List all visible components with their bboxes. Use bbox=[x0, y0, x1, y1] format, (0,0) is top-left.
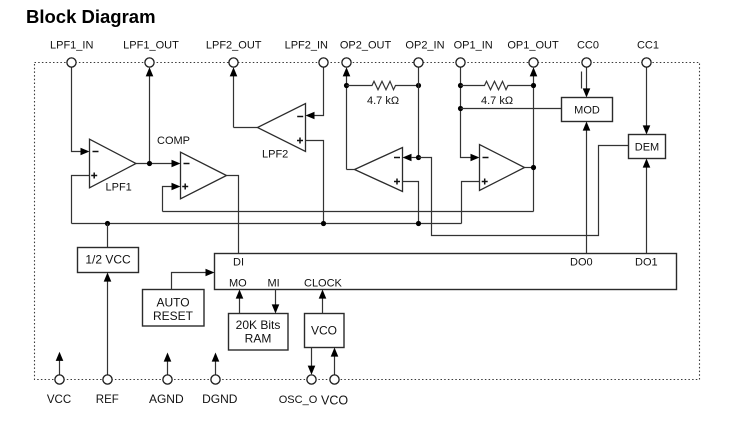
junction OP1_OUT and resistor right bbox=[531, 83, 536, 88]
svg-text:VCO: VCO bbox=[321, 394, 348, 408]
arrow down into DEM top bbox=[643, 125, 651, 134]
wire OP1_IN vertical bbox=[461, 67, 472, 158]
arrow up to LPF2_OUT terminal bbox=[230, 67, 238, 76]
plus label LPF2 bbox=[297, 140, 303, 142]
svg-text:OP2_OUT: OP2_OUT bbox=[340, 40, 392, 52]
wire DO0 from serial block up to MOD bottom bbox=[586, 130, 588, 254]
wire AGND terminal stub bbox=[167, 361, 169, 375]
wire OP2 plus to reference bus bbox=[403, 182, 419, 224]
block MOD bbox=[562, 98, 613, 122]
terminal DGND bbox=[211, 375, 220, 384]
arrow up AGND bbox=[164, 353, 172, 362]
wire LPF1 plus feedback from 1/2 VCC bus bbox=[72, 176, 90, 224]
svg-text:LPF2_IN: LPF2_IN bbox=[285, 40, 328, 52]
svg-text:OP1_IN: OP1_IN bbox=[454, 40, 493, 52]
terminal VCC bbox=[55, 375, 64, 384]
minus label OP2 bbox=[394, 157, 400, 159]
terminal OP2_IN bbox=[414, 58, 423, 67]
arrow down to OSC_O terminal bbox=[308, 366, 316, 375]
wire VCO to CLOCK bbox=[322, 298, 324, 314]
svg-text:DEM: DEM bbox=[635, 142, 659, 154]
minus label LPF1 bbox=[93, 151, 99, 153]
arrow up into 1/2 VCC bottom (REF) bbox=[104, 273, 112, 282]
op-amp LPF2 (points left) bbox=[258, 104, 306, 152]
op-amp OP2 (points left) bbox=[355, 148, 403, 192]
svg-text:4.7 kΩ: 4.7 kΩ bbox=[367, 95, 399, 107]
wire OP2_IN vertical bbox=[418, 67, 420, 158]
minus label OP1 bbox=[483, 157, 489, 159]
block AUTO RESET bbox=[143, 290, 205, 327]
wire MI from serial block down to RAM bbox=[275, 290, 277, 306]
wire REF terminal to 1/2 VCC box bbox=[107, 281, 109, 375]
plus label OP2 bbox=[394, 181, 400, 183]
arrow up DGND bbox=[212, 353, 220, 362]
plus label LPF1 bbox=[91, 175, 97, 177]
svg-text:AGND: AGND bbox=[149, 392, 184, 406]
arrow up into VCO box bottom bbox=[331, 348, 339, 357]
wire OP1_OUT vertical bbox=[533, 75, 535, 212]
arrow into LPF1 minus input bbox=[81, 148, 90, 156]
arrow up to OP1_OUT terminal bbox=[530, 67, 538, 76]
arrow up to OP2_OUT terminal bbox=[343, 67, 351, 76]
wire AUTO RESET to serial block left bbox=[172, 273, 207, 290]
arrow up into serial block (CLOCK) bbox=[319, 290, 327, 299]
wire MO from RAM up to serial block bbox=[239, 298, 241, 314]
wire VCC terminal stub bbox=[59, 360, 61, 375]
minus label LPF2 bbox=[297, 116, 303, 118]
wire DO1 from serial block up to DEM bottom bbox=[646, 167, 648, 254]
arrow down into RAM top (MI) bbox=[272, 304, 280, 313]
wire COMP output to DI bbox=[227, 176, 239, 254]
junction resistor right at OP2_IN wire bbox=[416, 83, 421, 88]
junction OP2 output and resistor bbox=[344, 83, 349, 88]
svg-text:COMP: COMP bbox=[157, 135, 190, 147]
wire LPF1_IN vertical+horizontal into LPF1 inverting input bbox=[72, 67, 81, 152]
svg-text:OSC_O: OSC_O bbox=[279, 394, 318, 406]
svg-text:DGND: DGND bbox=[202, 392, 238, 406]
terminal LPF1_OUT bbox=[145, 58, 154, 67]
svg-text:DO0: DO0 bbox=[570, 257, 593, 269]
arrow into OP2 minus input bbox=[403, 154, 412, 162]
terminal VCO bbox=[330, 375, 339, 384]
arrow into serial block left edge bbox=[206, 269, 215, 277]
junction OP1_IN and resistor left bbox=[458, 83, 463, 88]
svg-text:DO1: DO1 bbox=[635, 257, 658, 269]
svg-text:LPF1_OUT: LPF1_OUT bbox=[123, 40, 179, 52]
wire OP2 minus node to DEM input bbox=[419, 146, 629, 236]
arrow into COMP plus input bbox=[172, 183, 181, 191]
junction OP2 minus node bbox=[416, 155, 421, 160]
arrow into LPF2 minus input bbox=[306, 112, 315, 120]
terminal AGND bbox=[163, 375, 172, 384]
calibration mark beside CC0 wire bbox=[581, 72, 583, 89]
wire OP1 output tip bbox=[525, 167, 534, 169]
svg-text:MOD: MOD bbox=[574, 105, 600, 117]
terminal OSC_O bbox=[307, 375, 316, 384]
dashed chip boundary bbox=[35, 63, 700, 380]
arrow up into DEM bottom bbox=[643, 159, 651, 168]
wire LPF2_OUT vertical bbox=[233, 75, 235, 128]
terminal LPF2_OUT bbox=[229, 58, 238, 67]
svg-text:VCC: VCC bbox=[47, 394, 71, 406]
junction OP2 plus at bus bbox=[416, 221, 421, 226]
op-amp OP1 (points right) bbox=[480, 145, 525, 191]
wire LPF2 output tip to LPF2_OUT bbox=[234, 127, 258, 129]
plus label COMP bbox=[182, 186, 188, 188]
svg-text:1/2 VCC: 1/2 VCC bbox=[85, 253, 131, 267]
wire LPF2 plus to reference bus bbox=[306, 141, 324, 224]
wire CC0 to MOD top bbox=[586, 67, 588, 90]
block DEM bbox=[629, 135, 666, 159]
junction LPF1 output node bbox=[147, 161, 152, 166]
svg-text:4.7 kΩ: 4.7 kΩ bbox=[481, 95, 513, 107]
block 20K Bits RAM bbox=[229, 314, 289, 351]
terminal CC0 bbox=[582, 58, 591, 67]
wire bus1 OP1 output to COMP plus bbox=[163, 211, 534, 213]
svg-text:VCO: VCO bbox=[311, 324, 337, 338]
terminal LPF1_IN bbox=[67, 58, 76, 67]
block serial interface (DI MO MI CLOCK DO0 DO1) bbox=[215, 254, 677, 290]
wire LPF1 output to COMP minus input bbox=[136, 163, 172, 165]
resistor R 4.7k (OP1 feedback) bbox=[461, 81, 534, 89]
svg-text:OP1_OUT: OP1_OUT bbox=[507, 40, 559, 52]
wire OP2 output tip to OP2_OUT vertical bbox=[347, 169, 355, 171]
terminal LPF2_IN bbox=[319, 58, 328, 67]
arrow down into MOD top bbox=[583, 88, 591, 97]
svg-text:DI: DI bbox=[233, 257, 244, 269]
junction OP1_IN and MOD input line bbox=[458, 106, 463, 111]
block VCO bbox=[305, 314, 345, 348]
arrow into COMP minus input bbox=[172, 160, 181, 168]
wire COMP plus input from bus1 bbox=[163, 187, 173, 212]
wire CC1 to DEM top bbox=[646, 67, 648, 127]
op-amp LPF1 bbox=[90, 139, 137, 188]
terminal REF bbox=[103, 375, 112, 384]
svg-text:RAM: RAM bbox=[245, 332, 272, 346]
svg-text:AUTO: AUTO bbox=[156, 296, 189, 310]
arrow up VCC bbox=[56, 352, 64, 361]
arrow up into serial block (MO) bbox=[236, 290, 244, 299]
svg-text:LPF2_OUT: LPF2_OUT bbox=[206, 40, 262, 52]
wire 1/2 VCC box top to bus bbox=[107, 224, 109, 248]
svg-text:CC0: CC0 bbox=[577, 40, 599, 52]
svg-text:RESET: RESET bbox=[153, 309, 194, 323]
svg-text:20K Bits: 20K Bits bbox=[236, 318, 281, 332]
wire OP1_IN node to MOD left input bbox=[461, 108, 562, 110]
plus label OP1 bbox=[482, 181, 488, 183]
wire VCO box to OSC_O terminal bbox=[311, 348, 313, 367]
wire OP2_OUT vertical bbox=[346, 75, 348, 170]
svg-text:OP2_IN: OP2_IN bbox=[405, 40, 444, 52]
op-amp COMP bbox=[181, 152, 227, 199]
terminal OP1_IN bbox=[456, 58, 465, 67]
svg-text:Block Diagram: Block Diagram bbox=[26, 6, 156, 27]
junction bus to 1/2 VCC box bbox=[105, 221, 110, 226]
wire OP2 minus node to arrow bbox=[411, 157, 419, 159]
wire LPF1_OUT vertical bbox=[149, 75, 151, 164]
svg-text:REF: REF bbox=[96, 394, 119, 406]
terminal OP1_OUT bbox=[529, 58, 538, 67]
wire DGND terminal stub bbox=[215, 361, 217, 375]
svg-text:CC1: CC1 bbox=[637, 40, 659, 52]
wire OP1 plus from reference bus bbox=[462, 182, 480, 224]
svg-text:MO: MO bbox=[229, 278, 247, 290]
minus label COMP bbox=[184, 163, 190, 165]
arrow into OP1 minus input bbox=[471, 154, 480, 162]
svg-text:CLOCK: CLOCK bbox=[304, 278, 343, 290]
terminal CC1 bbox=[642, 58, 651, 67]
junction OP1 output node bbox=[531, 165, 536, 170]
arrow up into MOD bottom bbox=[583, 122, 591, 131]
wire VCO terminal up into VCO box bbox=[334, 356, 336, 375]
svg-text:LPF1: LPF1 bbox=[106, 182, 132, 194]
resistor R 4.7k (OP2 feedback) bbox=[347, 81, 419, 89]
block 1/2 VCC bbox=[78, 248, 139, 273]
junction LPF2 plus at bus bbox=[321, 221, 326, 226]
svg-text:MI: MI bbox=[268, 278, 280, 290]
arrow up to LPF1_OUT terminal bbox=[146, 67, 154, 76]
svg-text:LPF2: LPF2 bbox=[262, 149, 288, 161]
wire bus 1/2 VCC reference horizontal bbox=[72, 223, 462, 225]
terminal OP2_OUT bbox=[342, 58, 351, 67]
svg-text:LPF1_IN: LPF1_IN bbox=[50, 40, 93, 52]
wire LPF2_IN vertical to minus input bbox=[315, 67, 324, 116]
